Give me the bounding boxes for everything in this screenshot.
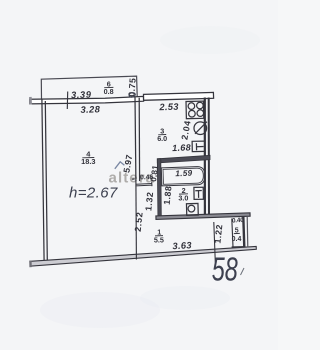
closet bottom line (232, 246, 246, 248)
svg-text:1.22: 1.22 (212, 224, 224, 244)
svg-text:3.63: 3.63 (172, 240, 192, 251)
label room 3 (157, 127, 167, 144)
label room 4 (81, 150, 95, 167)
svg-text:2.53: 2.53 (158, 102, 179, 113)
left exterior wall (double line) (42, 99, 47, 261)
svg-text:6.0: 6.0 (157, 134, 167, 143)
pen mark 58 (212, 251, 238, 288)
svg-text:0.75: 0.75 (126, 77, 137, 97)
kitchen washbasin (192, 141, 205, 152)
bathroom/closet bottom wall (156, 213, 250, 220)
svg-text:3.28: 3.28 (80, 104, 100, 115)
svg-text:18.3: 18.3 (81, 157, 95, 166)
pen ellipse on wall (129, 92, 136, 98)
pen tick after 58 (241, 268, 245, 275)
pen check near 5.97 (115, 162, 125, 169)
svg-text:0.40: 0.40 (232, 217, 245, 225)
svg-text:3.0: 3.0 (178, 194, 188, 203)
closet left line (232, 219, 233, 247)
stove (186, 101, 204, 119)
kitchen sink (194, 122, 207, 135)
label room 2 (178, 186, 188, 203)
door jamb / dim line near closet (214, 222, 216, 263)
label room 5 (232, 227, 242, 243)
label room 1 (154, 228, 164, 245)
svg-text:0.4: 0.4 (232, 236, 242, 243)
corridor tick (132, 178, 135, 180)
svg-text:1.68: 1.68 (172, 142, 191, 153)
svg-text:58: 58 (212, 251, 238, 288)
svg-text:0.46: 0.46 (140, 174, 154, 181)
svg-text:1.88: 1.88 (162, 185, 174, 205)
kitchen top wall (144, 92, 214, 100)
bottom exterior wall (29, 246, 256, 267)
balcony outline (room 6) (41, 76, 137, 98)
svg-text:1.59: 1.59 (175, 169, 193, 179)
corridor door dim line (136, 183, 152, 186)
window tick on top wall (66, 92, 68, 110)
kitchen / bathroom divider wall (157, 155, 210, 163)
kitchen right wall (double dark) (205, 98, 209, 217)
svg-text:0.8: 0.8 (104, 87, 114, 96)
toilet (186, 203, 198, 215)
svg-text:h=2.67: h=2.67 (69, 184, 118, 201)
svg-text:2.52: 2.52 (133, 211, 145, 232)
top exterior wall with window, room 4 (29, 96, 144, 104)
wall room4 / corridor+kitchen (double upper, single lower) (135, 97, 140, 260)
bath washbasin (194, 187, 204, 199)
bathtub (161, 167, 205, 186)
closet right wall double (243, 216, 248, 247)
svg-text:3.39: 3.39 (71, 90, 92, 101)
svg-text:1.32: 1.32 (143, 191, 155, 211)
label room 6 (104, 80, 114, 97)
bathroom left wall (dark) (157, 159, 161, 217)
svg-text:5.5: 5.5 (154, 235, 164, 244)
